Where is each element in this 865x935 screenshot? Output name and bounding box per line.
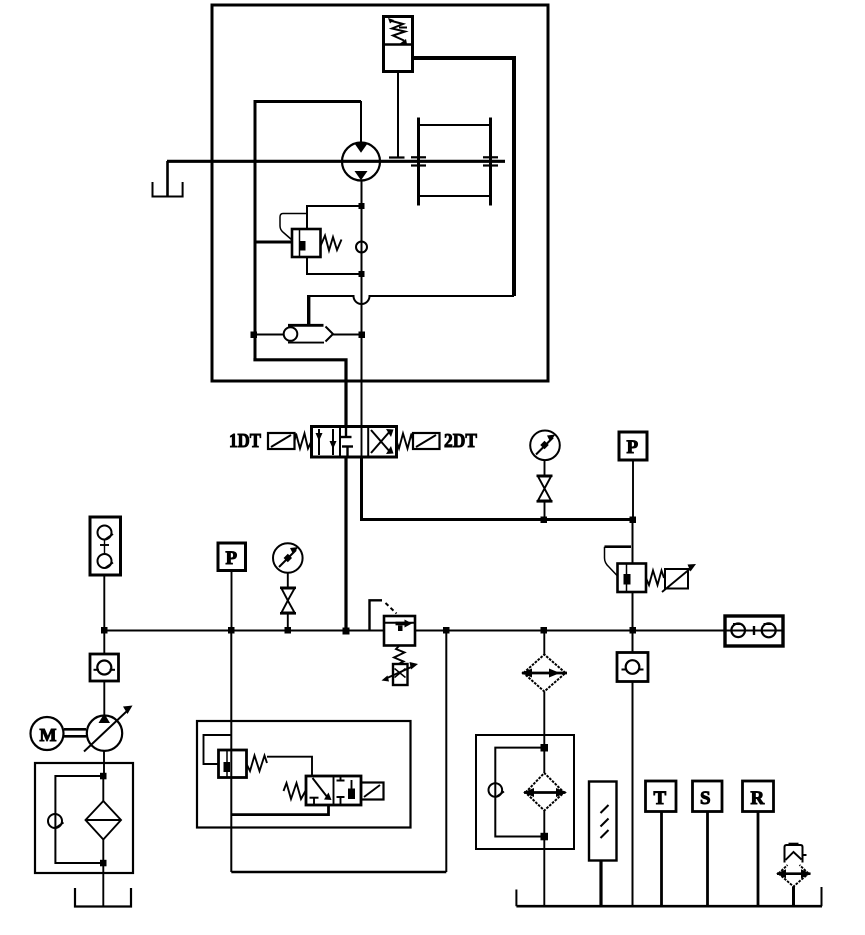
wire P box left to main line [231, 571, 233, 631]
RV1 input wire (thick) [255, 241, 292, 244]
main tank line [516, 887, 822, 906]
wire y=296 with hop over vertical line [309, 296, 514, 304]
junction dot A [359, 203, 365, 209]
test point P box (right) [619, 432, 647, 460]
F2 filter diamond [526, 773, 565, 811]
M1 flow triangle top [355, 144, 368, 153]
pressure gauge G2 [530, 431, 560, 461]
wire DV1 B-port down then right (thick) [362, 457, 633, 520]
V2 stem to line [544, 501, 546, 519]
pump unit enclosure box [212, 5, 548, 381]
junction dot F [630, 517, 637, 524]
wire main line down through sub-box [230, 631, 232, 873]
level gauge LG [589, 782, 617, 861]
solenoid 2DT box [413, 433, 440, 449]
FCV pilot relief box [382, 662, 419, 685]
DV2 left position [310, 778, 332, 805]
sequence valve RV3 body [618, 564, 647, 593]
F2 junction dots [541, 744, 549, 840]
electric motor M circle [31, 717, 64, 750]
RV1 bottom connection [307, 257, 362, 274]
solenoid 1DT box [268, 433, 295, 449]
wire left of capsule [254, 334, 285, 336]
wire down to valve RV3 [632, 520, 634, 565]
thick L wire to valve DV1 port [255, 358, 346, 428]
level switch S box [693, 781, 723, 812]
S stem [706, 812, 709, 907]
junction dot E [541, 517, 548, 524]
LG stem (thick) [599, 861, 602, 907]
F2 bypass check circle [489, 783, 505, 797]
wire down to main line [103, 575, 105, 654]
coupling flange bars left [411, 157, 426, 165]
R stem [757, 812, 760, 907]
test point P box (left) [218, 543, 246, 571]
junction dots on main line [101, 627, 636, 635]
RV3 pilot bracket [605, 547, 632, 576]
suction filter F1 enclosure [35, 763, 133, 873]
F2 bypass loop [495, 748, 544, 837]
coupling frame bottom rail [419, 195, 491, 197]
F1 filter diamond [86, 801, 122, 840]
V1 stem to main line [287, 613, 289, 630]
wire CV1 to pump P1 [103, 681, 105, 716]
directional valve DV1 body [312, 427, 397, 458]
F1 bypass check circle [48, 814, 64, 828]
coupling frame left bar [417, 118, 420, 206]
RV1 pilot line curve [280, 214, 306, 241]
pilot line from U1 to stroking piston (thick) [413, 58, 515, 296]
RV3 throttle box with arrow [662, 564, 696, 592]
coupling frame top rail [419, 124, 491, 126]
cooler diamond on return line [521, 631, 567, 692]
DV1 centre position blocked ports [341, 427, 354, 457]
DV2 solenoid box [361, 783, 384, 800]
return loop bottom wire (thick) [231, 871, 446, 874]
P1 variable arrow [84, 706, 133, 752]
wire cooler to return filter [543, 692, 545, 748]
F1 internal wires [102, 776, 104, 906]
double check valve stack box (left column) [90, 517, 121, 575]
junction dot C [251, 332, 258, 339]
flow control valve FCV body [384, 616, 415, 646]
drain tank symbol [153, 182, 183, 197]
RV1 spring [321, 236, 342, 251]
RV2 pilot loop [204, 735, 232, 764]
pressure gauge G1 [273, 543, 303, 573]
G1 stem [287, 573, 289, 588]
DV2 outlet wire (thick) [231, 805, 328, 815]
pilot control valve U1 body [384, 17, 413, 72]
variable pump P1 circle [87, 716, 122, 751]
F2 internal wires [543, 748, 545, 837]
F1 diamond crossline [86, 819, 122, 821]
F2 diamond crossline with arrows [523, 788, 567, 797]
DV1 spring right [397, 434, 414, 449]
DV1 spring left [295, 434, 312, 449]
wire P box to line [632, 460, 634, 520]
main vertical wire from M1 down [361, 181, 363, 428]
P1 outlet triangle [99, 714, 111, 724]
RV3 spring [646, 571, 664, 586]
feedback spring zigzag inside U1 [388, 18, 407, 44]
svg-text:S: S [700, 788, 711, 809]
thick supply wire DV1 to main line [344, 457, 347, 632]
svg-text:T: T [654, 788, 667, 809]
relief valve RV1 body [292, 229, 321, 257]
pump/motor M1 circle [342, 143, 380, 181]
tank symbol T1 [75, 888, 131, 907]
FCV internal arrow [396, 620, 413, 632]
pilot operated check valve capsule [284, 325, 333, 342]
control stem from U1 down to shaft [397, 72, 399, 157]
M1 flow triangle bottom [355, 171, 368, 180]
motor-pump coupling [64, 729, 86, 736]
svg-text:R: R [751, 788, 765, 809]
wire RV2 spring side to DV2 [267, 757, 312, 776]
wire RV3 down to main line [632, 592, 634, 631]
DV2 spring left [284, 783, 307, 799]
F1 junction dots [100, 773, 107, 867]
stem end T-bar [389, 156, 405, 158]
FCV pilot bracket [370, 600, 397, 630]
wire CV2 down to tank line [632, 682, 634, 907]
pilot stem into check capsule (thick) [307, 295, 310, 325]
junction dot D [359, 332, 366, 339]
DV1 left position arrows [316, 429, 337, 455]
shutoff valve V2 [537, 476, 553, 502]
wire P1 to filter F1 [103, 751, 105, 776]
svg-text:P: P [226, 548, 238, 569]
wire from top line down to pump M1 [360, 101, 362, 143]
coupling frame right bar [489, 118, 492, 206]
main pressure line [104, 630, 725, 632]
svg-text:P: P [627, 437, 639, 458]
FCV spring below [394, 646, 405, 665]
relief valve RV2 body [219, 750, 247, 778]
return filter F2 enclosure [476, 735, 574, 849]
wire right of capsule [333, 334, 362, 336]
svg-text:2DT: 2DT [444, 430, 478, 452]
relay sensor R box [743, 781, 774, 812]
DV1 crossing line through centre [361, 427, 363, 458]
shutoff valve V1 [280, 588, 296, 614]
wire F2 to tank line [543, 837, 545, 907]
suction drop to drain tank [166, 161, 169, 196]
directional valve DV2 body [306, 776, 361, 805]
gauge G2 stem [544, 460, 546, 476]
RV1 top connection [307, 206, 362, 229]
svg-text:1DT: 1DT [229, 430, 262, 452]
coupling flange bars right [483, 157, 498, 165]
DV1 right position crossed arrows [371, 429, 394, 454]
temperature sensor T box [646, 781, 677, 812]
air breather AB [776, 844, 811, 887]
return loop wire right [445, 631, 447, 873]
quick coupling box [725, 616, 783, 646]
unloading sub-assembly enclosure [197, 721, 411, 828]
T stem [660, 812, 663, 907]
inner thick branch line (left) [255, 102, 361, 360]
AB stem [792, 887, 795, 907]
RV2 spring [247, 756, 268, 772]
drive shaft line [167, 160, 505, 163]
check valve CV2 box [617, 653, 648, 682]
svg-text:M: M [40, 725, 57, 745]
check valve CV1 box [90, 654, 119, 681]
junction dot B [359, 271, 365, 277]
F1 bypass loop [55, 776, 103, 863]
long return wire to tank [632, 631, 634, 653]
node: check ball circle on main line [356, 242, 367, 253]
DV2 right position [337, 776, 356, 805]
